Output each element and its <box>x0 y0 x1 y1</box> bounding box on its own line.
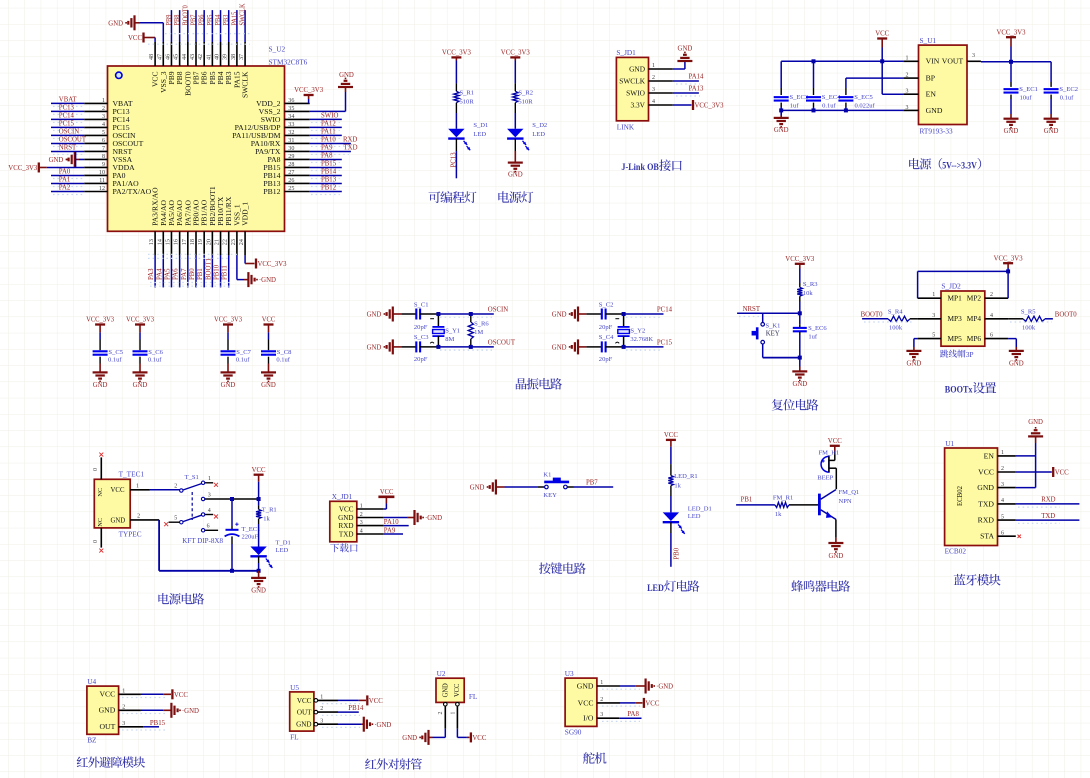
svg-text:VCC_3V3: VCC_3V3 <box>126 317 155 324</box>
crystal S_Y2 32.768K <box>615 314 653 347</box>
svg-text:3: 3 <box>972 52 975 59</box>
U4 pin 2 GND <box>99 703 141 714</box>
svg-text:2: 2 <box>102 105 105 112</box>
pin 48 VCC (top) <box>148 42 160 87</box>
svg-text:S_R6: S_R6 <box>474 320 489 327</box>
power port VCC (U4) <box>141 689 188 699</box>
svg-text:S_D2: S_D2 <box>532 122 547 129</box>
svg-text:FL: FL <box>290 733 299 742</box>
svg-text:42: 42 <box>197 54 204 60</box>
junction dots <box>622 312 626 349</box>
pin 47 VSS_3 (top) <box>156 42 168 93</box>
svg-text:PB7: PB7 <box>193 71 201 85</box>
svg-text:0.1uf: 0.1uf <box>822 102 836 109</box>
svg-text:GND: GND <box>99 707 116 715</box>
svg-text:PC15: PC15 <box>657 340 673 347</box>
svg-text:ECB02: ECB02 <box>956 486 964 506</box>
capacitor S_EC4 0.1uf <box>806 61 841 110</box>
svg-text:PC14: PC14 <box>113 116 131 124</box>
svg-text:PB4: PB4 <box>215 14 222 25</box>
svg-text:S_D1: S_D1 <box>473 122 488 129</box>
svg-text:PB0: PB0 <box>189 268 196 280</box>
svg-text:TXD: TXD <box>339 531 354 538</box>
svg-text:·GND: ·GND <box>425 515 442 522</box>
svg-text:20pF: 20pF <box>414 324 428 331</box>
svg-text:MP2: MP2 <box>967 295 982 303</box>
svg-text:2: 2 <box>360 511 363 518</box>
ground at VSS_2 pin 35 <box>310 72 354 111</box>
net label PB7 <box>567 479 613 487</box>
svg-text:VCC: VCC <box>472 735 486 742</box>
net label PA14 <box>673 74 704 84</box>
svg-text:GND: GND <box>111 516 126 524</box>
svg-text:1: 1 <box>360 503 363 510</box>
power port VCC (download) <box>378 489 394 509</box>
wire NRST-row vertical <box>75 151 77 167</box>
svg-text:LED: LED <box>688 513 701 520</box>
svg-text:NPN: NPN <box>839 498 852 505</box>
svg-text:GND: GND <box>1028 419 1043 426</box>
ground (MP5) <box>906 339 921 368</box>
svg-text:PA10: PA10 <box>384 518 399 526</box>
svg-text:17: 17 <box>181 239 188 245</box>
pin 33 PA12/USB/DP (right) <box>235 121 342 132</box>
power port VCC (LED circuit) <box>664 432 678 464</box>
svg-text:ECB02: ECB02 <box>945 547 967 556</box>
svg-text:5: 5 <box>174 515 177 522</box>
svg-text:U4: U4 <box>87 677 96 686</box>
svg-text:GND: GND <box>443 683 450 697</box>
power port VCC (input) <box>875 31 889 62</box>
svg-text:220uF: 220uF <box>242 533 259 540</box>
svg-text:6: 6 <box>102 137 105 144</box>
svg-text:PB9: PB9 <box>166 14 173 25</box>
svg-text:0: 0 <box>92 468 99 471</box>
net label PB0 <box>671 522 680 567</box>
svg-text:18: 18 <box>189 239 196 245</box>
svg-text:36: 36 <box>288 97 294 104</box>
wire TEC1 VCC to switch <box>150 489 180 491</box>
svg-text:PA8: PA8 <box>268 156 282 164</box>
svg-text:VBAT: VBAT <box>59 97 77 104</box>
pin 22 PB11/RX (bottom) <box>222 197 234 288</box>
power port VCC (U5) <box>338 695 383 705</box>
svg-text:0.1uf: 0.1uf <box>236 357 250 364</box>
svg-text:VCC_3V3: VCC_3V3 <box>86 317 115 324</box>
svg-text:7: 7 <box>102 145 105 152</box>
svg-text:RXD: RXD <box>339 523 354 530</box>
svg-text:PB6: PB6 <box>201 71 209 85</box>
title crystal circuit <box>516 378 562 390</box>
power port VCC_3V3 (S_C6) <box>126 317 155 340</box>
svg-text:PC13: PC13 <box>450 152 457 168</box>
svg-text:GND: GND <box>907 360 922 367</box>
svg-text:2: 2 <box>320 705 323 712</box>
svg-text:NC: NC <box>97 488 104 497</box>
net label BOOT0 (right) <box>1055 310 1077 318</box>
svg-text:3: 3 <box>600 711 603 718</box>
svg-text:BOOT0: BOOT0 <box>1055 310 1077 318</box>
wire VOUT rail <box>981 60 1051 64</box>
svg-text:3P: 3P <box>966 350 975 359</box>
svg-text:34: 34 <box>288 113 295 120</box>
title obstacle avoid module <box>77 756 145 767</box>
capacitor S_EC3 1uf <box>774 61 809 110</box>
svg-text:5: 5 <box>102 129 105 136</box>
svg-text:PB9: PB9 <box>168 71 176 85</box>
svg-text:VCC: VCC <box>828 438 842 445</box>
svg-text:35: 35 <box>288 105 294 112</box>
net label PC13 <box>450 139 457 179</box>
pin 14 PA4/AO (bottom) <box>156 200 168 287</box>
svg-text:BOOT0: BOOT0 <box>184 71 192 96</box>
svg-text:PB14: PB14 <box>348 704 364 712</box>
pin 29 PA8 (right) <box>268 153 342 164</box>
svg-text:U2: U2 <box>437 669 446 678</box>
svg-text:GND: GND <box>339 72 354 79</box>
svg-text:LED: LED <box>647 583 664 594</box>
resistor S_R5 100k <box>1008 309 1053 332</box>
svg-text:MP5: MP5 <box>948 335 963 343</box>
power port VCC_3V3 at VDD_2 pin 36 <box>294 87 324 103</box>
svg-text:PB7: PB7 <box>586 479 598 487</box>
svg-text:GND: GND <box>93 382 108 389</box>
svg-text:STA: STA <box>980 533 994 541</box>
svg-text:PA1: PA1 <box>59 177 71 184</box>
ground (U3) <box>620 679 673 694</box>
wire OSC row2 <box>624 346 664 348</box>
dotted marks top <box>148 34 250 45</box>
net label PC15 <box>626 340 673 351</box>
ground (buzzer) <box>828 519 843 559</box>
wire buzzer to collector <box>835 468 837 489</box>
designator U5 <box>290 683 299 692</box>
pin 20 PB2/BOOT1 (bottom) <box>205 186 217 288</box>
svg-text:GND: GND <box>1004 128 1019 135</box>
svg-text:1k: 1k <box>674 483 681 490</box>
pin 21 PB10/TX (bottom) <box>214 197 226 288</box>
svg-text:GND: GND <box>1044 128 1059 135</box>
svg-text:KEY: KEY <box>543 492 557 499</box>
net label PA8 <box>619 710 641 718</box>
svg-text:38: 38 <box>230 54 237 60</box>
comment SG90 <box>565 728 582 737</box>
svg-text:PA6: PA6 <box>173 268 180 280</box>
comment ECB02 <box>945 547 967 556</box>
svg-text:RXD: RXD <box>343 137 357 144</box>
svg-text:5V-->3.3V: 5V-->3.3V <box>942 162 977 172</box>
S_JD1 pin 3 SWIO <box>626 86 673 97</box>
svg-text:PC13: PC13 <box>113 108 131 116</box>
svg-text:GND: GND <box>629 65 645 73</box>
pin 45 PB8 (top) <box>173 10 185 84</box>
svg-text:PB11/RX: PB11/RX <box>225 197 233 226</box>
designator S_JD1 <box>616 48 636 57</box>
svg-text:PA7: PA7 <box>181 268 188 280</box>
svg-text:U3: U3 <box>565 669 574 678</box>
junction dots R6 <box>469 312 473 349</box>
svg-text:VCC_3V3: VCC_3V3 <box>994 255 1024 262</box>
svg-text:3: 3 <box>102 113 105 120</box>
ground (U2) <box>402 729 445 745</box>
svg-text:MP6: MP6 <box>967 335 982 343</box>
IC U2 STM32C8T6 body <box>108 66 285 231</box>
pin 10 PA0 <box>51 169 126 180</box>
wire OSC row1 <box>624 313 664 315</box>
svg-text:1: 1 <box>208 475 211 482</box>
svg-text:LINK: LINK <box>617 123 635 132</box>
U3 pin 1 GND <box>577 679 620 690</box>
S_JD2 pins 5/6 MP5 MP6 <box>918 332 1009 343</box>
svg-text:VCC_3V3: VCC_3V3 <box>442 50 472 57</box>
svg-text:20pF: 20pF <box>599 356 613 363</box>
ground (download) <box>384 510 442 525</box>
pin 31 PA10/RX (right) <box>251 137 351 148</box>
pin 25 PB12 (right) <box>263 185 341 196</box>
module U3 body <box>565 678 597 726</box>
pin 41 PB5 (top) <box>205 10 217 84</box>
connector X_JD1 body <box>330 501 357 542</box>
svg-text:GND: GND <box>774 127 789 134</box>
ground (S_C8) <box>261 372 276 388</box>
capacitor S_C4 20pF <box>586 334 623 363</box>
wire OSC row1 <box>438 313 493 315</box>
power port VCC_3V3 at S_JD1 pin 4 <box>673 100 724 110</box>
svg-text:PB5: PB5 <box>209 71 217 85</box>
svg-text:PA10/RX: PA10/RX <box>251 140 281 148</box>
svg-text:T_EC1: T_EC1 <box>242 526 261 533</box>
LED T_D1 <box>250 539 290 568</box>
T_S1 pin 3 <box>205 491 232 499</box>
pin 24 VDD_1 (bottom) <box>238 201 250 255</box>
X_JD1 pin 1 VCC <box>339 503 384 514</box>
svg-text:VCC: VCC <box>875 31 889 38</box>
pin 36 VDD_2 (right) <box>256 97 310 108</box>
pin 16 PA6/AO (bottom) <box>173 200 185 287</box>
LED S_D1 <box>448 113 488 150</box>
svg-text:PA11/USB/DM: PA11/USB/DM <box>232 132 281 140</box>
LED S_D2 <box>507 113 547 150</box>
power port VCC at pin 48 <box>128 33 155 43</box>
svg-text:S_U1: S_U1 <box>920 36 937 45</box>
power port VCC_3V3 (programmable LED) <box>442 50 472 84</box>
svg-text:VCC: VCC <box>380 489 394 496</box>
svg-text:PA6/AO: PA6/AO <box>176 200 184 226</box>
ground (S_C7) <box>221 372 236 388</box>
svg-text:PA12: PA12 <box>321 121 336 128</box>
svg-text:VCC_3V3: VCC_3V3 <box>8 165 38 172</box>
power port VCC_3V3 (BOOTx) <box>994 255 1024 271</box>
svg-text:VCC: VCC <box>100 691 116 699</box>
svg-text:VCC: VCC <box>174 692 188 699</box>
svg-text:VCC: VCC <box>978 468 994 476</box>
svg-text:VCC_3V3: VCC_3V3 <box>294 87 324 94</box>
svg-text:TYPEC: TYPEC <box>119 530 142 539</box>
U2 pin 1 (VCC) <box>450 702 459 728</box>
svg-text:PA2/TX/AO: PA2/TX/AO <box>113 188 152 196</box>
svg-text:PB10/TX: PB10/TX <box>217 197 225 226</box>
svg-text:NRST: NRST <box>59 145 77 152</box>
svg-text:PB1: PB1 <box>741 496 753 504</box>
connector T_TEC1 body <box>94 479 130 528</box>
S_U1 pin 3 GND <box>903 104 942 115</box>
svg-text:S_C6: S_C6 <box>148 349 163 356</box>
svg-text:S_C5: S_C5 <box>108 349 123 356</box>
svg-text:PC14: PC14 <box>657 307 673 314</box>
net label RXD <box>343 137 357 144</box>
svg-text:GND: GND <box>49 157 64 164</box>
svg-text:J-Link OB: J-Link OB <box>621 163 659 173</box>
X_JD1 pin 2 GND <box>338 511 384 522</box>
svg-text:2: 2 <box>122 703 125 710</box>
svg-text:OSCOUT: OSCOUT <box>488 340 516 347</box>
no-connect STA <box>1018 535 1021 538</box>
svg-text:FL: FL <box>469 692 478 701</box>
designator U1 <box>945 439 954 448</box>
svg-text:PB13: PB13 <box>321 177 337 184</box>
T_S1 pin 2 num <box>174 483 177 490</box>
svg-text:S_Y1: S_Y1 <box>445 327 460 334</box>
svg-text:BZ: BZ <box>87 735 97 744</box>
svg-text:OSCOUT: OSCOUT <box>113 140 145 148</box>
comment KFT DIP-8X8 <box>182 537 223 545</box>
wire MP1 loop <box>918 269 1011 298</box>
svg-text:1: 1 <box>122 687 125 694</box>
svg-text:BOOT1: BOOT1 <box>205 258 212 280</box>
power port VCC_3V3 (output) <box>997 29 1027 61</box>
title key circuit <box>539 562 586 574</box>
svg-text:PA2: PA2 <box>59 185 71 192</box>
svg-text:11: 11 <box>99 177 105 184</box>
net label PB1 <box>736 496 775 505</box>
module U5 body <box>290 692 314 731</box>
U1 pin 2 VCC <box>978 465 1016 476</box>
svg-text:S_R4: S_R4 <box>888 309 903 316</box>
svg-text:2: 2 <box>990 291 993 298</box>
pin 19 PB1/AO (bottom) <box>197 200 209 288</box>
svg-text:0.1uf: 0.1uf <box>276 357 290 364</box>
pin 38 PA15 (top) <box>230 10 242 88</box>
svg-text:T_TEC1: T_TEC1 <box>119 469 145 478</box>
svg-text:VCC: VCC <box>128 35 142 42</box>
svg-text:·GND: ·GND <box>656 684 673 691</box>
capacitor S_EC1 10uf <box>1004 62 1038 135</box>
svg-text:OUT: OUT <box>297 710 312 717</box>
svg-text:PB5: PB5 <box>207 14 214 25</box>
T_S1 pin 1 <box>205 475 218 487</box>
svg-text:1: 1 <box>906 55 909 62</box>
ground (U5) <box>338 717 391 732</box>
svg-text:PB8: PB8 <box>176 71 184 85</box>
svg-text:PA10: PA10 <box>321 137 336 144</box>
T_TEC1 pin GND <box>97 513 159 527</box>
designator S_U2 <box>269 45 286 54</box>
net label NRST wire <box>737 306 800 317</box>
svg-text:BOOT0: BOOT0 <box>861 310 883 318</box>
pin 40 PB4 (top) <box>214 10 226 84</box>
svg-text:9: 9 <box>102 161 105 168</box>
svg-text:PB3: PB3 <box>223 14 230 25</box>
svg-text:GND: GND <box>792 381 807 388</box>
svg-text:26: 26 <box>288 177 294 184</box>
svg-text:SWCLK: SWCLK <box>242 72 250 99</box>
power port VCC (U2) <box>457 729 486 743</box>
T_S1 pin 6 <box>205 523 218 531</box>
ground at VSS_1 pin 23 <box>237 255 276 287</box>
svg-text:28: 28 <box>288 161 294 168</box>
pin 12 PA2/TX/AO <box>51 185 151 196</box>
svg-text:S_U2: S_U2 <box>269 45 286 54</box>
pin 37 SWCLK (top) <box>238 3 250 98</box>
svg-text:100k: 100k <box>1022 324 1036 331</box>
ground (U4) <box>141 703 199 718</box>
svg-text:GND: GND <box>470 485 485 492</box>
svg-text:13: 13 <box>148 239 155 245</box>
svg-text:TXD: TXD <box>1041 512 1055 520</box>
svg-text:GND: GND <box>678 45 693 52</box>
svg-text:1k: 1k <box>263 516 270 523</box>
svg-text:29: 29 <box>288 153 294 160</box>
svg-text:SWIO: SWIO <box>626 89 645 97</box>
U3 pin 3 I/O <box>583 711 619 722</box>
svg-text:GND: GND <box>133 382 148 389</box>
net label PC14 <box>626 307 673 318</box>
svg-text:PA3/RX/AO: PA3/RX/AO <box>152 187 160 225</box>
wire OSC row2 <box>438 346 493 348</box>
title servo <box>583 752 606 764</box>
net label OSCIN <box>440 307 508 318</box>
svg-text:VCC: VCC <box>297 698 312 705</box>
IC S_U1 body <box>919 45 968 124</box>
svg-text:OSCIN: OSCIN <box>59 129 79 136</box>
ground (S_C6) <box>133 372 148 388</box>
wire switch to T_R1 node <box>230 497 261 501</box>
svg-text:3: 3 <box>906 88 909 95</box>
svg-text:41: 41 <box>205 54 212 60</box>
svg-text:VCC: VCC <box>369 698 383 705</box>
S_U1 pin 3 VOUT <box>942 52 981 66</box>
svg-text:RXD: RXD <box>1041 496 1055 504</box>
svg-text:10uf: 10uf <box>1020 94 1033 101</box>
svg-text:GND: GND <box>552 312 567 319</box>
svg-text:31: 31 <box>288 137 294 144</box>
capacitor S_C8 0.1uf <box>261 340 292 373</box>
designator T_TEC1 <box>119 469 145 478</box>
svg-text:0.1uf: 0.1uf <box>1060 94 1074 101</box>
pin 46 PB9 (top) <box>164 10 176 84</box>
ground at pin 47 <box>108 15 163 42</box>
pin 5 OSCIN <box>51 129 136 140</box>
svg-text:VIN: VIN <box>926 58 940 66</box>
svg-text:2: 2 <box>1001 465 1004 472</box>
svg-text:1: 1 <box>652 62 655 69</box>
pin 30 PA9/TX (right) <box>255 145 351 156</box>
pin 44 BOOT0 (top) <box>181 5 193 96</box>
svg-text:5: 5 <box>932 332 935 339</box>
pin 11 PA1/AO <box>51 177 139 188</box>
svg-text:6: 6 <box>207 523 210 530</box>
U2 pin 2 (GND) <box>438 702 447 728</box>
U5 pin 2 OUT <box>297 705 338 716</box>
svg-text:PA0: PA0 <box>113 172 127 180</box>
svg-text:S_C7: S_C7 <box>236 349 251 356</box>
svg-text:10: 10 <box>99 169 105 176</box>
svg-text:27: 27 <box>288 169 294 176</box>
svg-text:3: 3 <box>932 312 935 319</box>
wire BP to EC5 <box>846 78 904 85</box>
svg-text:VCC: VCC <box>111 486 125 494</box>
svg-text:LED: LED <box>473 131 486 138</box>
